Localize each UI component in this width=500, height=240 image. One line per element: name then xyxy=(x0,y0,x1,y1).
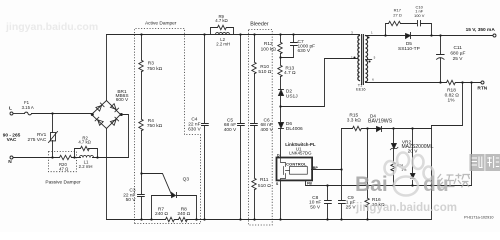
svg-text:BAV19WS: BAV19WS xyxy=(368,118,393,124)
svg-text:50 V: 50 V xyxy=(126,197,137,203)
svg-text:DL4006: DL4006 xyxy=(286,126,303,132)
svg-text:400 V: 400 V xyxy=(260,127,273,133)
svg-text:BP: BP xyxy=(313,166,319,170)
svg-text:510 Ω: 510 Ω xyxy=(258,69,271,75)
svg-text:R3: R3 xyxy=(148,61,154,67)
svg-text:630 V: 630 V xyxy=(298,48,311,54)
svg-text:240 Ω: 240 Ω xyxy=(177,211,190,217)
svg-text:jingyan.baidu.com: jingyan.baidu.com xyxy=(5,21,98,33)
svg-text:US1J: US1J xyxy=(286,93,298,99)
svg-text:R12: R12 xyxy=(264,41,273,47)
svg-text:Passive Damper: Passive Damper xyxy=(45,179,81,185)
svg-text:2.2 mH: 2.2 mH xyxy=(79,164,93,169)
svg-text:400 V: 400 V xyxy=(224,127,237,133)
svg-text:R11: R11 xyxy=(260,177,269,183)
svg-text:MAZS2000ML: MAZS2000ML xyxy=(402,144,434,150)
svg-text:600 V: 600 V xyxy=(116,97,129,103)
svg-text:100 V: 100 V xyxy=(414,13,425,18)
svg-text:C11: C11 xyxy=(453,45,462,51)
svg-text:jingyan.baidu.com: jingyan.baidu.com xyxy=(355,202,457,214)
svg-text:1%: 1% xyxy=(401,168,406,172)
svg-text:25 V: 25 V xyxy=(453,56,464,62)
svg-text:15 V, 350 mA: 15 V, 350 mA xyxy=(466,27,496,33)
svg-text:LNK457DG: LNK457DG xyxy=(289,151,312,156)
svg-text:3.15 A: 3.15 A xyxy=(22,105,34,110)
svg-text:4.7 kΩ: 4.7 kΩ xyxy=(215,18,228,23)
svg-text:27 Ω: 27 Ω xyxy=(393,12,402,17)
svg-text:0.82 Ω: 0.82 Ω xyxy=(445,93,460,99)
svg-text:50 V: 50 V xyxy=(310,204,321,210)
svg-text:510 Ω: 510 Ω xyxy=(258,183,271,189)
svg-text:Bai: Bai xyxy=(355,173,388,196)
svg-text:750 kΩ: 750 kΩ xyxy=(147,123,163,129)
svg-text:L: L xyxy=(9,106,12,112)
svg-text:20 V: 20 V xyxy=(408,149,419,155)
svg-text:PI-6171a-102910: PI-6171a-102910 xyxy=(464,216,493,220)
svg-text:SS110-TP: SS110-TP xyxy=(398,46,420,52)
svg-text:C4: C4 xyxy=(191,116,197,122)
svg-text:N: N xyxy=(8,159,12,165)
svg-text:du: du xyxy=(423,173,449,196)
svg-text:750 kΩ: 750 kΩ xyxy=(147,66,163,72)
svg-text:CONTROL: CONTROL xyxy=(286,161,307,166)
svg-text:3.3 kΩ: 3.3 kΩ xyxy=(347,117,361,123)
svg-text:25 V: 25 V xyxy=(346,204,357,210)
svg-text:R18: R18 xyxy=(447,87,456,93)
svg-text:RTN: RTN xyxy=(477,86,487,92)
svg-text:4.7 Ω: 4.7 Ω xyxy=(284,70,296,76)
svg-text:FB: FB xyxy=(307,181,312,185)
svg-text:240 Ω: 240 Ω xyxy=(155,211,168,217)
svg-text:2.2 mH: 2.2 mH xyxy=(216,41,230,46)
svg-text:D: D xyxy=(277,154,280,158)
svg-text:275 VAC: 275 VAC xyxy=(27,137,46,143)
svg-text:EE16: EE16 xyxy=(356,87,366,92)
svg-text:22 nF: 22 nF xyxy=(188,121,200,127)
svg-text:4.7 kΩ: 4.7 kΩ xyxy=(78,140,91,145)
svg-text:VAC: VAC xyxy=(7,137,17,143)
svg-text:R4: R4 xyxy=(148,118,154,124)
svg-text:Bleeder: Bleeder xyxy=(250,21,268,27)
svg-text:1%: 1% xyxy=(448,98,456,104)
svg-text:Q3: Q3 xyxy=(183,177,190,183)
svg-text:Active Damper: Active Damper xyxy=(145,20,177,26)
svg-text:100 kΩ: 100 kΩ xyxy=(261,47,277,53)
svg-text:630 V: 630 V xyxy=(188,127,201,133)
svg-text:47 Ω: 47 Ω xyxy=(59,166,69,171)
svg-text:680 µF: 680 µF xyxy=(450,51,465,57)
